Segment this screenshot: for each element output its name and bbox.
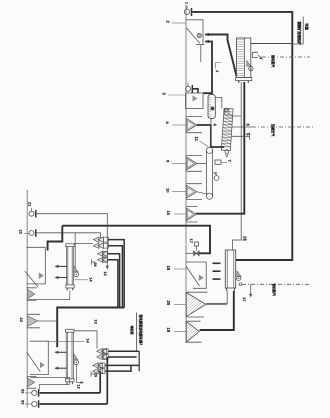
svg-text:14: 14	[89, 277, 93, 282]
screw top bearing box	[225, 109, 229, 115]
wire thick: pump32 riser	[99, 371, 101, 393]
wire thick: P33 discharge	[40, 403, 108, 405]
flotation tank T18	[166, 262, 206, 288]
wire thick: F2 outlet to triangle 15	[196, 82, 245, 214]
wire dash-dot air line	[252, 126, 313, 128]
wire thick: pump P1 discharge to vessel 16	[192, 12, 292, 260]
svg-text:电积液: 电积液	[130, 326, 135, 335]
wash arrows FA	[55, 265, 68, 279]
wire thick: nozzle A tails to bundle	[107, 240, 124, 308]
svg-text:铜精矿送熔炼炉: 铜精矿送熔炼炉	[297, 22, 302, 46]
svg-text:14: 14	[86, 339, 90, 344]
wire: unit B bottom piping	[39, 385, 69, 391]
wire thick: feed drop to tank A	[48, 226, 63, 251]
svg-text:17: 17	[189, 239, 194, 244]
vessel VS16	[225, 250, 235, 291]
svg-text:20: 20	[166, 301, 171, 306]
wire border left section	[26, 190, 28, 408]
hopper small A	[27, 288, 37, 300]
node label 16	[233, 236, 248, 241]
node flag: to electrolysis label	[130, 313, 143, 352]
wire: screw top lines 6 and 5	[231, 116, 252, 140]
svg-text:饱和蒸汽: 饱和蒸汽	[272, 283, 277, 297]
wire thick: nozzle B tails to flag header	[105, 351, 139, 371]
filter column F2	[236, 38, 252, 83]
wire thick: filter underflow arrow into chute	[205, 33, 237, 76]
ball mill M capsule	[208, 95, 218, 146]
svg-text:23: 23	[19, 318, 24, 323]
svg-text:22: 22	[19, 230, 24, 235]
pump P21	[28, 202, 36, 218]
wire border right section	[185, 5, 187, 343]
pump P2	[186, 83, 199, 94]
feed spout circle	[197, 33, 201, 37]
svg-text:16: 16	[243, 236, 248, 241]
svg-text:15: 15	[166, 211, 171, 216]
wire thick: P32 discharge	[40, 392, 101, 394]
wire: column FA feed line	[74, 243, 93, 245]
svg-text:3: 3	[162, 93, 167, 96]
sampler box R7	[215, 160, 232, 165]
svg-text:33: 33	[21, 400, 26, 405]
wire thick: bundle header to tank B	[57, 308, 124, 348]
triangle hopper T20	[166, 292, 208, 317]
triangle hopper T15	[166, 207, 198, 223]
wire dash-dot steam line F2	[262, 56, 310, 58]
nozzle pair B1	[97, 349, 108, 360]
wire thin: VS16 underflow to triangle 20	[226, 291, 228, 304]
belt conveyor C	[194, 137, 213, 200]
svg-text:7: 7	[227, 160, 232, 163]
svg-text:8: 8	[165, 122, 170, 125]
pennant VS16	[237, 271, 242, 281]
flotation tank TB	[27, 341, 84, 375]
svg-text:13: 13	[94, 320, 98, 324]
hook fitting B	[91, 371, 98, 377]
svg-text:6: 6	[246, 124, 251, 127]
triangle hopper T08	[166, 156, 207, 172]
svg-text:饱和蒸汽: 饱和蒸汽	[271, 54, 276, 68]
wire thick main header	[62, 226, 210, 254]
wire: unit A bottom piping	[27, 290, 69, 299]
flotation tank TA	[25, 247, 46, 287]
svg-text:9: 9	[166, 160, 171, 163]
wire thick: pump33 riser	[106, 357, 108, 404]
nozzle pair A2	[98, 251, 108, 262]
pennant F2	[246, 61, 253, 71]
feed dashes into vessel 16	[213, 263, 221, 279]
triangle hopper T05	[165, 117, 202, 133]
triangle hopper T09	[166, 184, 207, 200]
svg-text:1: 1	[185, 2, 189, 4]
svg-text:11: 11	[194, 137, 199, 142]
wire: mill to screw top	[215, 98, 222, 109]
wire thick: triangle5 to screw bottom	[197, 125, 225, 147]
svg-text:吹炼: 吹炼	[305, 24, 310, 31]
hopper mid 23	[19, 314, 57, 328]
wire thick: pump P2 riser arrow into chute	[203, 40, 212, 93]
hook fitting A	[91, 259, 97, 266]
svg-text:12: 12	[103, 272, 107, 276]
tank T3	[186, 93, 204, 109]
wire dash-dot steam line VS16	[239, 283, 310, 303]
pump P1	[184, 2, 191, 16]
svg-text:32: 32	[21, 389, 26, 394]
node label 3	[162, 93, 187, 96]
steam inlet bracket on F2	[253, 52, 263, 59]
pump P22	[19, 229, 36, 237]
valve V17	[186, 239, 199, 256]
hopper small B	[27, 376, 37, 388]
mill feed chute	[187, 20, 205, 62]
svg-text:1: 1	[215, 70, 220, 73]
wire thin: F2 outlet to vessel16	[233, 82, 242, 250]
svg-text:10: 10	[166, 188, 171, 193]
svg-text:12: 12	[77, 385, 81, 389]
svg-text:19: 19	[166, 328, 171, 333]
svg-text:17: 17	[242, 297, 247, 302]
pump P33	[21, 400, 39, 408]
wire: branch to filter column F2 top	[251, 43, 292, 45]
svg-text:4: 4	[213, 124, 218, 127]
node flag: product label top right	[292, 17, 309, 46]
svg-text:29: 29	[93, 263, 97, 267]
wire: column FB feed line	[74, 331, 97, 349]
node label bracket 10	[215, 63, 222, 74]
svg-text:18: 18	[166, 266, 171, 271]
wash column FA	[66, 244, 74, 291]
svg-text:29: 29	[94, 373, 98, 377]
svg-text:21: 21	[28, 202, 33, 207]
wash arrows FB	[54, 351, 67, 370]
triangle hopper T19	[166, 321, 202, 342]
motor circle on conveyor	[213, 172, 220, 181]
svg-text:压缩空气: 压缩空气	[271, 124, 276, 137]
nozzle pair A1	[94, 237, 109, 249]
wire: P22 to pennant A	[37, 233, 101, 268]
node label 14a	[75, 277, 93, 282]
screw conveyor S	[221, 108, 233, 151]
node label 2	[166, 21, 187, 24]
svg-text:2: 2	[166, 21, 171, 24]
svg-text:铜电解液送电解车间: 铜电解液送电解车间	[138, 315, 143, 344]
wire: P21 to nozzle pair A1	[37, 214, 108, 269]
pennant FA	[74, 266, 79, 277]
screw end circles	[224, 108, 227, 111]
pump P32	[21, 389, 39, 397]
nozzle pair B2	[93, 363, 105, 374]
wire thick: VS16 outlet to triangle 19	[200, 291, 234, 330]
pennant FB	[73, 354, 84, 389]
wire: flag vertical bracket B	[138, 351, 140, 371]
wash column FB	[66, 329, 74, 384]
